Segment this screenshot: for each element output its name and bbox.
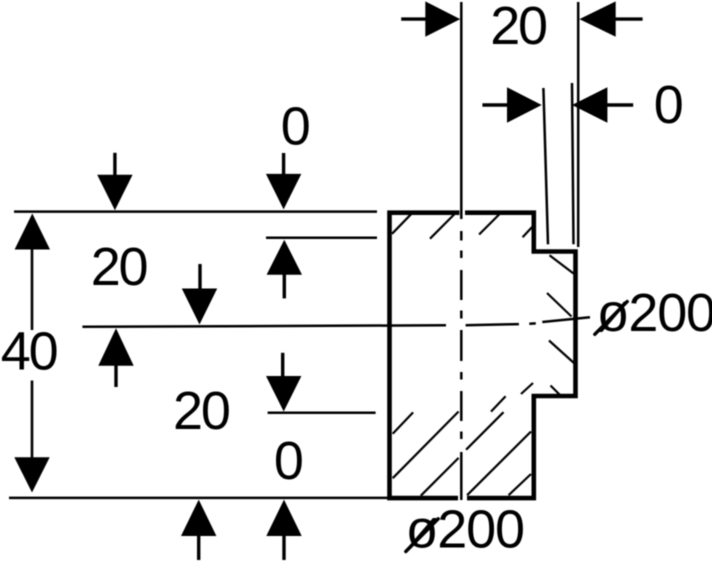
hatch step tick S1 [521,383,533,394]
slash extension of bottom diameter sign [406,519,438,552]
hatch T2 [430,213,455,238]
hatch B [393,412,459,479]
svg-text:20: 20 [173,381,229,441]
flange hatch P1 [550,255,574,273]
flange hatch P2 [547,293,572,317]
zero dim arrow left [482,87,541,122]
arrow down x199 (20 lower, at middle line) [182,264,217,325]
top 20 dim arrow left [401,1,460,36]
40 dim line lower segment [31,381,34,460]
extension line L1 (zero dim left, slanted) [543,88,548,244]
horizontal centerline solid left part (dim line for 20/20) [82,325,446,327]
flange hatch P4 [551,386,560,395]
svg-text:40: 40 [1,321,57,381]
zero offset line upper [266,236,377,239]
arrow up x199 (20 lower, at bottom line) [181,500,216,560]
hatch D [466,412,503,450]
hatch top band [392,212,575,496]
arrow up x284 (0 upper, at offset line) [267,240,302,299]
arrow down x115 (20 upper, at top line) [97,153,132,210]
hatch C [421,458,459,496]
centerline leader to right label [542,317,590,322]
arrow down x284 (0 upper, at top line) [266,153,301,209]
hatch T1 [392,213,412,234]
arrow down x284 (0 lower, at offset line) [266,353,301,412]
svg-text:20: 20 [91,237,147,297]
hatch G [491,396,506,411]
svg-text:0: 0 [274,431,304,491]
vertical centerline dash-dot through part [460,231,463,500]
svg-text:0: 0 [281,97,311,157]
slash extension of right diameter sign [595,302,627,335]
40 dim line upper segment [31,248,34,330]
40 dim arrow down [14,457,49,492]
hatch F [509,474,531,495]
svg-text:ø200: ø200 [406,500,524,560]
bottom extension line (bottom edge level) [9,497,388,500]
hatch T3 [479,212,502,235]
part outline right portion with flange step [465,213,576,498]
40 dim arrow up [15,214,50,250]
extension line right face (for top 20 dim) [577,2,580,247]
hatch A [393,412,413,433]
vertical centerline extension (top dim to part) [460,2,463,219]
hatch T4 [523,226,534,238]
arrow up x116 (20 upper, at middle line) [98,328,133,387]
extension line L2 (zero dim right) [572,83,574,244]
flange hatch P3 [549,341,575,364]
zero dim arrow right [572,87,633,122]
top extension line (top edge level) [14,210,377,213]
hatch E [467,432,531,496]
svg-text:20: 20 [490,0,546,56]
horizontal centerline dashes inside part [466,323,536,325]
zero offset line lower [268,411,376,414]
top 20 dim arrow right [579,1,642,36]
arrow up x284 (0 lower, at bottom line) [266,500,301,560]
svg-text:0: 0 [654,75,684,135]
part outline left portion [390,213,460,498]
